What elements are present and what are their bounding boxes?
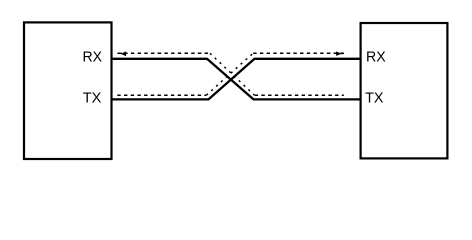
svg-text:RX: RX [83,48,103,65]
svg-text:RX: RX [366,48,386,65]
svg-text:TX: TX [83,89,102,106]
svg-text:TX: TX [365,89,383,106]
